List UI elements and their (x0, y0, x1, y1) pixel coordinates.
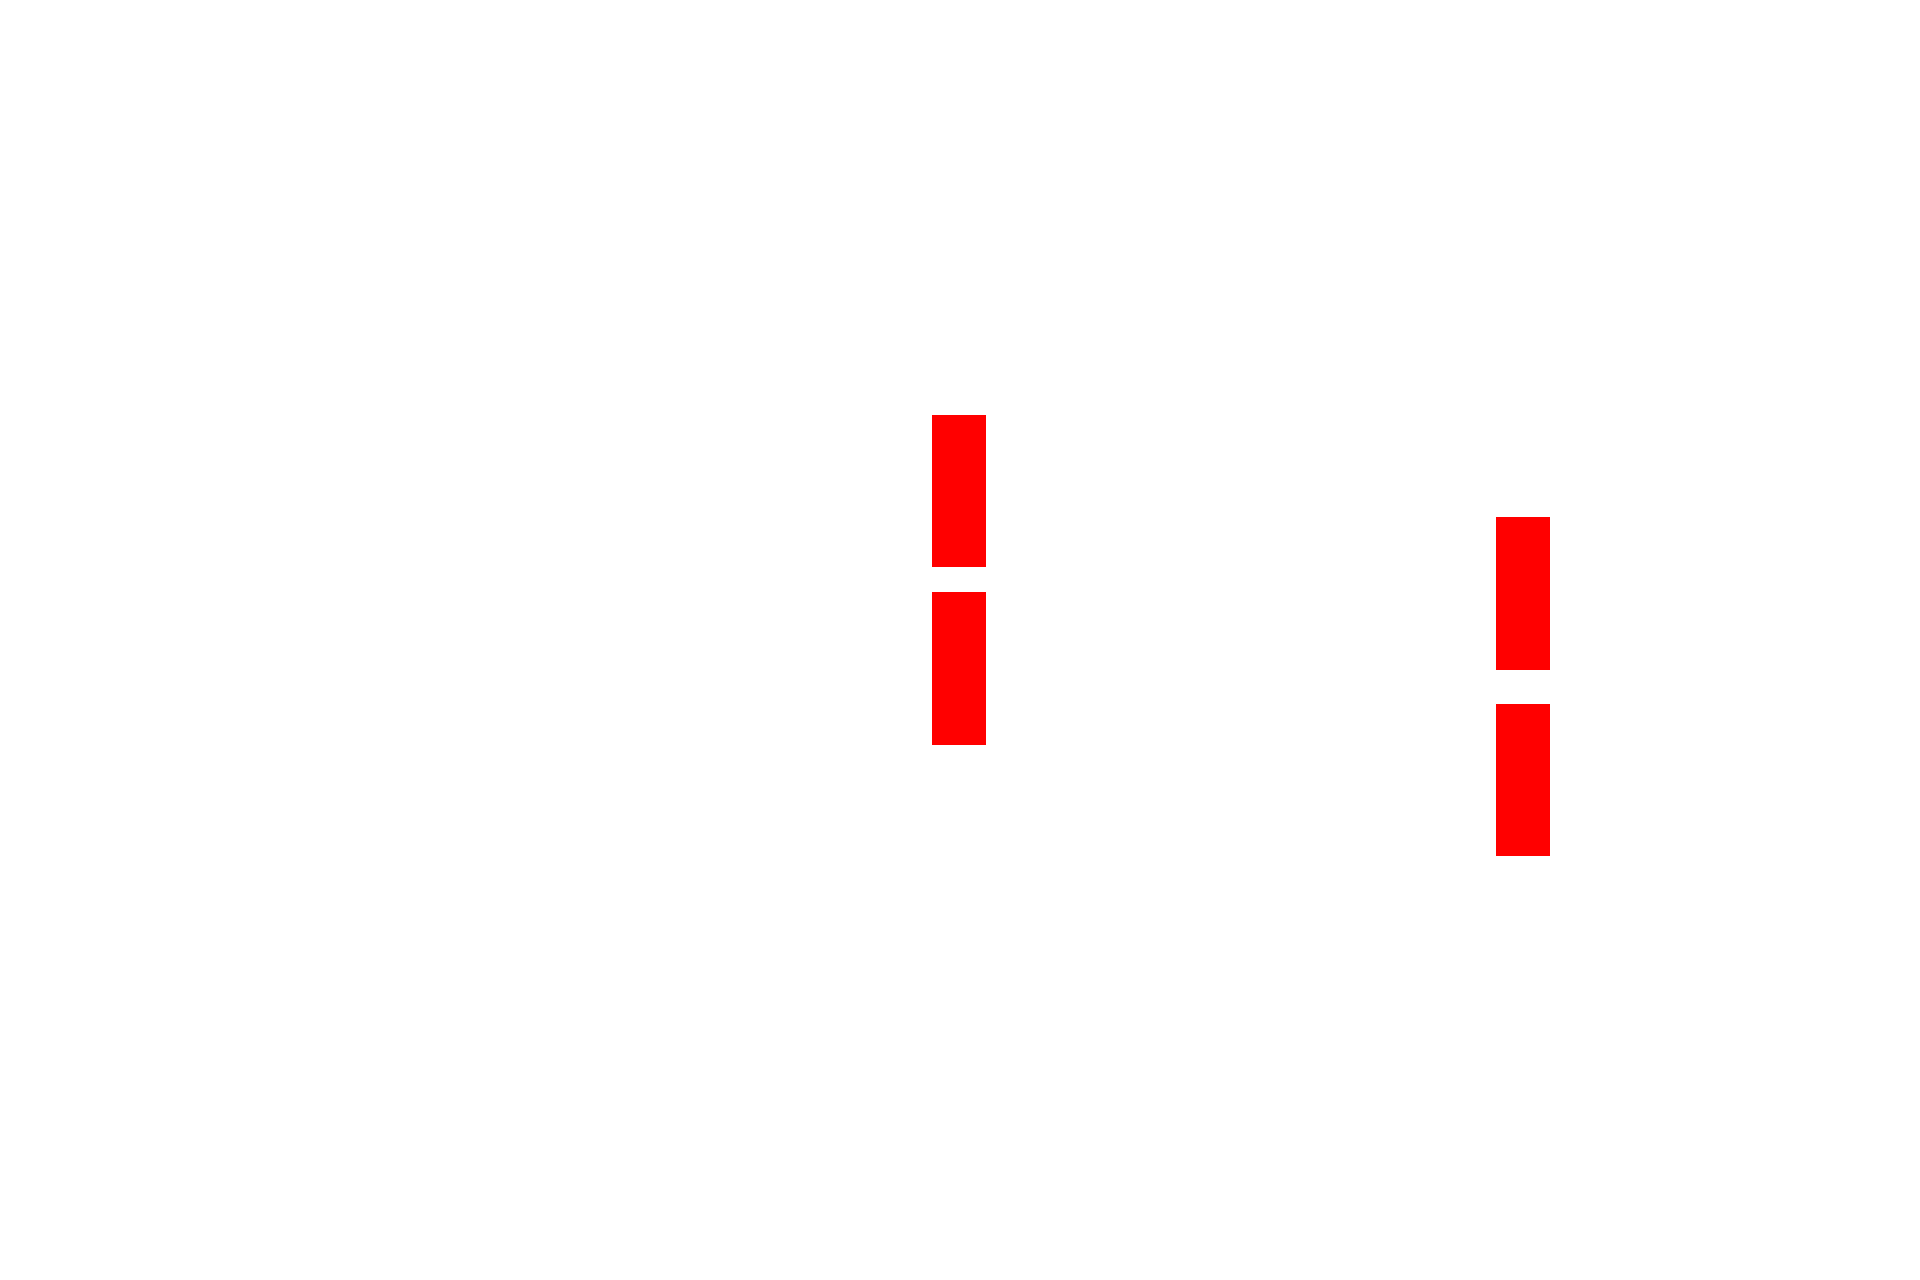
red bar 2 (left column, lower segment) (932, 592, 986, 745)
red bar 3 (right column, upper segment) (1496, 517, 1550, 670)
red bar 1 (left column, upper segment) (932, 415, 986, 567)
red bar 4 (right column, lower segment) (1496, 704, 1550, 856)
